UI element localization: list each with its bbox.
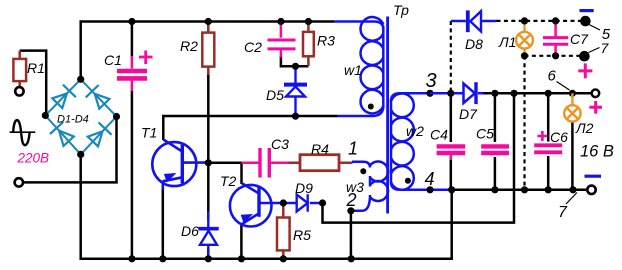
- node bridge bottom: [77, 151, 84, 158]
- transistor T2: [230, 183, 283, 227]
- node T1 emitter rail: [159, 255, 166, 262]
- node C7 bottom: [552, 52, 559, 59]
- svg-text:w2: w2: [406, 123, 424, 139]
- label terminal 4 + node: [426, 186, 433, 193]
- wire R2 branch vertical: [207, 26, 210, 259]
- svg-text:6: 6: [548, 68, 557, 85]
- label terminal 3 + node: [426, 90, 433, 97]
- capacitor C6: [534, 145, 562, 152]
- node C6 minus rail: [545, 186, 552, 193]
- wire top rail from bridge + vertex: [81, 22, 334, 80]
- lamp L1: [516, 32, 533, 49]
- svg-text:w1: w1: [344, 62, 362, 78]
- svg-text:C1: C1: [104, 52, 122, 68]
- node w1 phase dot: [368, 104, 374, 110]
- diode D5: [284, 66, 307, 116]
- winding w1: [334, 17, 383, 116]
- resistor R4: [289, 162, 353, 165]
- node C2 R3 D5: [292, 63, 299, 70]
- svg-text:4: 4: [425, 169, 435, 189]
- winding w2: [391, 93, 452, 190]
- diode D3 lower-left: [50, 122, 74, 146]
- node L1 bottom: [521, 52, 528, 59]
- svg-text:D5: D5: [266, 87, 284, 103]
- transformer core: [386, 17, 389, 214]
- dashed wire D8 anode down to plus rail: [450, 21, 452, 93]
- node D6 rail: [205, 255, 212, 262]
- svg-text:C4: C4: [430, 127, 448, 143]
- diode D9: [283, 194, 322, 212]
- node dashed minus rail: [521, 186, 528, 193]
- svg-text:C5: C5: [476, 126, 494, 142]
- svg-text:3: 3: [426, 70, 437, 92]
- terminal 7 top: [579, 51, 590, 62]
- wire plus rail black part after D7: [483, 92, 592, 95]
- resistor R1: [18, 51, 21, 87]
- svg-text:Тр: Тр: [393, 2, 409, 18]
- svg-text:220В: 220В: [17, 151, 50, 166]
- wire C1 vertical black parts: [131, 22, 134, 58]
- svg-text:T1: T1: [141, 125, 157, 141]
- svg-text:C3: C3: [271, 136, 289, 152]
- svg-text:R4: R4: [311, 141, 329, 157]
- svg-text:D1-D4: D1-D4: [57, 114, 89, 126]
- terminal 7 bottom circle: [587, 186, 595, 194]
- node L2 plus rail terminal 6: [569, 90, 576, 97]
- node C1 top: [128, 18, 135, 25]
- svg-text:R5: R5: [293, 227, 311, 243]
- wire R1 top to bridge left vertex: [20, 51, 47, 116]
- wire C4 leads: [450, 93, 453, 190]
- svg-text:1: 1: [348, 139, 358, 159]
- capacitor C7: [543, 22, 568, 56]
- resistor R3: [307, 22, 310, 67]
- diode D2 upper-right: [86, 85, 110, 109]
- svg-text:R1: R1: [27, 60, 45, 76]
- svg-text:16 В: 16 В: [580, 143, 614, 161]
- wire lamp L2 bottom lead: [571, 122, 574, 190]
- minus sign bottom: [585, 175, 602, 178]
- svg-text:D8: D8: [465, 36, 483, 52]
- diode D1 upper-left: [52, 85, 76, 109]
- svg-text:T2: T2: [220, 173, 237, 189]
- node R3 top: [305, 18, 312, 25]
- node T2 base D9 R5: [280, 199, 287, 206]
- wire T1 collector up to w1 bottom wire: [163, 116, 337, 140]
- svg-text:D7: D7: [459, 106, 478, 122]
- node D5 w1 wire: [292, 113, 299, 120]
- capacitor C2: [268, 22, 296, 58]
- node A R2 T1 base: [205, 159, 212, 166]
- node terminal 2: [347, 207, 354, 214]
- node bridge right: [113, 113, 120, 120]
- wire T1 emitter down: [162, 186, 165, 259]
- node w2 phase dot: [405, 178, 411, 184]
- node R5 rail: [280, 255, 287, 262]
- capacitor C1: [117, 51, 153, 92]
- wire plus rail blue parts and diode D7: [430, 82, 484, 104]
- plus sign terminal 7 top: [578, 63, 592, 78]
- svg-text:Л2: Л2: [575, 120, 594, 136]
- node C6 plus rail: [545, 90, 552, 97]
- wire AC bottom terminal to bridge right vertex: [19, 117, 117, 183]
- minus sign terminal 5: [580, 9, 594, 12]
- winding w3: [352, 162, 388, 211]
- dashed wire L1 bottom down to minus rail: [523, 56, 525, 190]
- label 7 bottom: [566, 193, 577, 205]
- node L1 top: [521, 17, 528, 24]
- resistor R2: [207, 22, 210, 76]
- terminal AC top: [15, 87, 23, 95]
- capacitor C5: [481, 146, 509, 153]
- plus sign terminal 6: [589, 101, 602, 114]
- wire minus rail black part: [452, 189, 588, 192]
- capacitor C4: [437, 146, 466, 153]
- terminal 5: [580, 16, 591, 27]
- AC sine symbol: [10, 131, 36, 133]
- svg-text:C6: C6: [550, 129, 568, 145]
- node C1 bottom rail: [128, 255, 135, 262]
- node C5 plus rail: [491, 90, 498, 97]
- resistor R5: [282, 203, 285, 259]
- svg-text:7: 7: [601, 40, 610, 56]
- node D9 wire plus rail: [510, 90, 517, 97]
- lamp L2: [564, 93, 580, 121]
- svg-text:C7: C7: [570, 31, 589, 47]
- diode D4 lower-right: [88, 122, 112, 146]
- node R2 top: [205, 18, 212, 25]
- dashed wire L1 bottom to terminal 7: [525, 55, 583, 57]
- node C5 minus rail: [491, 186, 498, 193]
- node L2 minus rail: [569, 186, 576, 193]
- terminal AC bottom: [15, 178, 23, 186]
- wire lamp L1 leads: [523, 21, 525, 56]
- wire bridge minus vertex down and bottom ground rail to lower output rail: [81, 154, 452, 258]
- svg-text:R2: R2: [180, 38, 198, 54]
- wire D9 cathode to plus rail long path: [323, 93, 515, 222]
- diode D8: [451, 10, 497, 32]
- node bridge left: [42, 112, 49, 119]
- svg-text:7: 7: [558, 204, 568, 221]
- terminal 6 circle: [592, 90, 600, 98]
- svg-text:C2: C2: [244, 39, 262, 55]
- node D9 cathode: [319, 199, 326, 206]
- wire C5 leads: [494, 93, 497, 190]
- node terminal 2 bottom: [348, 255, 355, 262]
- capacitor C3: [242, 148, 289, 178]
- svg-text:D6: D6: [181, 223, 199, 239]
- node w3 phase dot: [360, 168, 366, 174]
- svg-text:Л1: Л1: [498, 34, 516, 50]
- wire terminal 2 down: [350, 211, 353, 259]
- diode D6: [198, 212, 218, 259]
- node C7 top: [552, 17, 559, 24]
- dashed wire D8 cathode to terminal 5: [497, 20, 584, 22]
- svg-text:R3: R3: [317, 33, 335, 49]
- svg-text:D9: D9: [295, 180, 313, 196]
- node C2 top: [277, 18, 284, 25]
- node C4 plus rail: [447, 90, 454, 97]
- node bridge top: [77, 76, 84, 83]
- node w2 lower junction: [448, 186, 455, 193]
- svg-text:2: 2: [346, 190, 357, 210]
- wire T2 emitter down: [240, 224, 243, 259]
- wire node A to T2 collector corner: [208, 163, 241, 184]
- wire C6 leads: [547, 93, 550, 190]
- wire C2 bottom corner to R3: [281, 56, 309, 66]
- node T2 emitter rail: [238, 255, 245, 262]
- bridge rectifier D1-D4: [45, 79, 116, 154]
- transistor T1: [152, 140, 208, 190]
